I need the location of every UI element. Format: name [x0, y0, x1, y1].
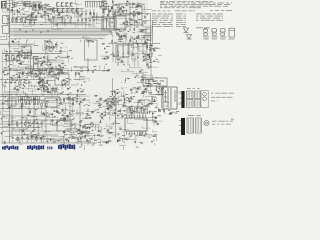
transistor Q22 — [62, 80, 67, 85]
resistor R34 — [137, 35, 140, 38]
diode D83 — [96, 101, 98, 102]
wire — [103, 142, 106, 144]
resistor R22 — [49, 67, 52, 70]
label text — [185, 19, 186, 22]
wire — [56, 52, 68, 56]
label text — [51, 66, 53, 69]
capacitor C146 — [59, 98, 61, 101]
wire — [0, 103, 30, 105]
node N1 — [109, 10, 112, 13]
connector P2 housing — [181, 118, 185, 135]
label text — [104, 0, 106, 3]
wire part lead2 — [41, 125, 43, 127]
label text — [56, 41, 57, 44]
diode D35 — [149, 56, 150, 58]
wire — [124, 30, 128, 37]
wire — [152, 47, 160, 49]
label text — [118, 139, 121, 142]
wire — [131, 54, 139, 59]
wire — [25, 68, 62, 70]
wire — [109, 101, 115, 108]
wire — [54, 85, 58, 89]
label text — [226, 9, 232, 12]
diode D73 — [147, 112, 148, 114]
watermark word 3 — [47, 147, 53, 150]
wire — [43, 81, 45, 87]
label text — [42, 78, 44, 81]
label text — [153, 100, 155, 103]
wire part lead — [16, 17, 18, 19]
node N24 — [115, 9, 118, 12]
label text — [30, 70, 33, 73]
transistor Q23 — [147, 64, 149, 66]
capacitor C119 — [117, 115, 119, 116]
capacitor C21 — [19, 29, 20, 31]
diode D71 — [67, 131, 69, 132]
label text — [81, 101, 83, 104]
label text — [129, 0, 132, 1]
label text — [125, 93, 128, 96]
resistor R67 — [94, 94, 97, 97]
capacitor C128 — [39, 73, 41, 76]
wire — [53, 18, 63, 25]
transistor Q45 — [86, 113, 88, 115]
transistor Q8 — [58, 14, 60, 16]
label text — [196, 17, 198, 20]
wire — [137, 2, 139, 9]
legend package TO-92 pads — [204, 33, 208, 35]
label text — [169, 5, 176, 8]
wire — [76, 69, 83, 71]
wire — [86, 110, 95, 112]
label text — [136, 107, 137, 110]
label text — [221, 9, 224, 12]
resistor R63 — [35, 136, 38, 139]
label text — [25, 128, 28, 131]
wire — [112, 78, 114, 96]
label text — [181, 10, 187, 13]
diode D20 — [127, 31, 129, 32]
label text — [119, 113, 122, 116]
label text — [106, 55, 108, 58]
label text — [99, 102, 100, 105]
wire — [130, 18, 134, 23]
wire — [118, 10, 120, 12]
wire — [76, 67, 88, 74]
label text — [176, 15, 181, 18]
label text — [47, 101, 49, 104]
resistor R83 — [98, 104, 101, 107]
wire — [12, 10, 17, 14]
label text — [158, 114, 162, 117]
capacitor CX2 — [38, 4, 40, 9]
wire — [105, 1, 107, 8]
capacitor C26 — [18, 52, 20, 53]
capacitor C78 — [99, 122, 101, 123]
label text — [64, 82, 66, 85]
label text — [178, 3, 182, 6]
label text — [113, 100, 115, 103]
wire — [48, 14, 55, 20]
label text — [94, 109, 97, 112]
resistor R36 — [124, 35, 127, 38]
wire part lead — [16, 120, 18, 122]
wire — [55, 140, 67, 143]
resistor R62 — [72, 135, 75, 138]
wire — [3, 125, 8, 127]
wire — [29, 87, 36, 92]
wire — [97, 139, 100, 143]
label text — [130, 12, 131, 15]
wire — [61, 120, 67, 122]
wire — [110, 116, 115, 124]
wire — [116, 11, 119, 13]
wire — [157, 61, 161, 63]
label text — [124, 101, 127, 104]
wire — [105, 51, 108, 53]
diode D37 — [147, 59, 149, 60]
resistor R99 — [158, 110, 161, 113]
diode D3 — [44, 4, 46, 5]
label text — [21, 50, 24, 53]
wire — [125, 9, 127, 12]
wire — [125, 37, 127, 44]
wire — [19, 89, 26, 92]
wire — [47, 56, 49, 63]
wire — [135, 106, 138, 108]
wire — [58, 58, 68, 63]
label text — [47, 8, 49, 11]
wire stub — [10, 32, 14, 34]
label text — [98, 141, 101, 144]
wire — [59, 66, 61, 73]
wire part lead2 — [12, 140, 14, 142]
node junction — [28, 52, 32, 55]
label text — [124, 113, 127, 116]
wire — [2, 86, 7, 88]
choke L3 — [116, 45, 129, 57]
label text — [171, 17, 173, 20]
wire part lead — [17, 135, 19, 137]
resistor R71 — [90, 123, 93, 126]
label text — [87, 114, 90, 117]
transistor Q34 — [72, 103, 74, 105]
diode D12 — [60, 47, 62, 48]
diode D72 — [80, 134, 82, 135]
capacitor C35 — [16, 56, 18, 57]
resistor R48 — [144, 43, 147, 46]
capacitor bank C3 — [66, 2, 68, 6]
wire — [16, 85, 21, 87]
wire — [26, 59, 35, 62]
resistor R80 — [20, 106, 23, 109]
capacitor C122 — [29, 103, 31, 106]
pin header tick 11 — [39, 96, 41, 103]
wire — [64, 141, 66, 148]
capacitor C45 — [123, 6, 124, 8]
node N23 — [120, 26, 123, 29]
label text — [137, 22, 140, 25]
label text — [91, 144, 94, 147]
wire vertical string 5 — [93, 9, 95, 26]
resistor R95 — [148, 54, 151, 57]
watermark word 4 — [58, 144, 75, 150]
wire — [142, 22, 152, 26]
wire — [81, 131, 88, 133]
capacitor C37 — [39, 69, 40, 71]
diode D48 — [115, 94, 116, 96]
resistor R46 — [111, 40, 114, 43]
node N28 — [22, 75, 25, 78]
node N47 — [71, 124, 74, 127]
label text — [46, 115, 49, 118]
wire part lead — [43, 87, 45, 89]
wire — [141, 7, 145, 11]
wire — [140, 40, 142, 42]
wire — [33, 44, 37, 46]
label text — [29, 102, 31, 105]
transistor Q21 — [121, 60, 123, 62]
wire part lead2 — [7, 22, 9, 24]
wire part lead2 — [43, 92, 45, 94]
resistor R58 — [29, 72, 32, 75]
capacitor C132 — [10, 81, 12, 84]
label text — [154, 110, 156, 113]
wire — [89, 21, 97, 27]
label text — [150, 44, 152, 47]
wire — [148, 91, 151, 93]
label text — [202, 0, 208, 3]
label text — [149, 44, 152, 47]
wire — [58, 92, 64, 94]
label text — [110, 90, 113, 93]
wire bus line A — [14, 21, 89, 23]
transistor Q10 — [29, 20, 34, 25]
diode D16 — [49, 64, 51, 65]
capacitor C33 — [20, 63, 21, 65]
label text — [16, 60, 17, 63]
label text — [163, 13, 167, 16]
wire — [6, 50, 8, 57]
transistor Q60 — [114, 112, 116, 114]
resistor R105 — [107, 107, 110, 110]
wire — [96, 20, 108, 22]
label text — [203, 5, 208, 8]
resistor array RN1 — [127, 108, 129, 113]
label text — [89, 139, 91, 142]
capacitor C48 — [137, 5, 139, 6]
label text — [136, 4, 139, 7]
label text — [15, 93, 18, 96]
resistor R42 — [118, 35, 121, 38]
wire part lead — [25, 101, 27, 103]
label text — [114, 41, 116, 44]
wire — [13, 129, 18, 131]
label text — [135, 8, 137, 11]
label text — [34, 133, 37, 136]
label text — [196, 15, 199, 18]
diode D42 — [67, 81, 68, 83]
wire — [2, 53, 62, 55]
wire — [82, 113, 85, 115]
wire — [10, 134, 58, 136]
label text — [152, 21, 157, 24]
node N18 — [131, 40, 134, 43]
pin tick 4 — [91, 1, 93, 8]
wire part lead — [20, 17, 22, 19]
wire — [4, 85, 16, 93]
label text — [23, 52, 25, 55]
wire — [48, 47, 57, 50]
label text — [74, 12, 75, 15]
wire — [29, 106, 33, 109]
legend package SOT pads — [212, 33, 216, 35]
label text — [118, 96, 120, 99]
transistor Q50 — [141, 107, 143, 109]
diode D65 — [72, 119, 74, 120]
label text — [61, 42, 63, 45]
watermark word 2 — [27, 145, 44, 150]
wire — [64, 108, 66, 114]
transistor Q44 — [40, 138, 42, 140]
wire — [133, 21, 137, 27]
diode D31 — [127, 21, 128, 23]
wire part lead2 — [48, 76, 50, 78]
wire — [115, 100, 122, 102]
label text — [16, 79, 18, 82]
wire — [138, 28, 148, 30]
pin header tick 4 — [24, 96, 26, 103]
resistor R3 — [23, 3, 26, 6]
capacitor C147 — [63, 98, 65, 101]
wire part lead2 — [5, 85, 7, 87]
wire — [50, 69, 57, 75]
label text — [159, 108, 161, 111]
label text — [148, 53, 150, 56]
node N50 — [73, 117, 76, 120]
transistor Q47 — [78, 129, 80, 131]
label text — [170, 111, 172, 114]
label text — [34, 73, 36, 76]
resistor R77 — [82, 125, 85, 128]
label text — [60, 70, 63, 73]
label text — [55, 65, 56, 68]
scan shading left — [0, 0, 148, 145]
capacitor C70 — [19, 75, 20, 77]
wire — [58, 72, 66, 74]
transistor Q9 — [60, 50, 62, 52]
scan shading primary — [0, 39, 66, 73]
label text — [29, 124, 32, 127]
label text — [54, 141, 55, 144]
label text — [137, 13, 140, 16]
wire — [112, 112, 117, 114]
capacitor C52 — [143, 55, 144, 57]
label text — [87, 37, 89, 40]
label text — [141, 103, 143, 106]
capacitor C6 bulk — [34, 64, 39, 71]
label text — [158, 23, 161, 26]
wire bus band 5 — [14, 33, 111, 35]
wire — [147, 99, 151, 101]
label text — [212, 13, 216, 16]
resistor R31 — [133, 14, 136, 17]
wire — [108, 43, 160, 45]
resistor R51 — [143, 59, 146, 62]
wire — [72, 130, 74, 134]
wire — [43, 9, 53, 11]
label text — [109, 136, 111, 139]
diode D44 — [12, 78, 13, 80]
label text — [221, 92, 227, 95]
label text — [196, 27, 203, 30]
wire — [81, 19, 92, 26]
label text — [141, 142, 143, 145]
capacitor C116 — [48, 84, 50, 85]
label text — [176, 13, 183, 16]
wire — [91, 127, 101, 131]
label text — [35, 118, 37, 121]
resistor R45 — [119, 8, 122, 11]
wire — [51, 139, 59, 141]
label text — [119, 99, 122, 102]
wire part lead2 — [67, 102, 69, 104]
wire part lead2 — [16, 22, 18, 24]
capacitor C118 — [39, 81, 40, 83]
wire — [81, 99, 90, 101]
label text — [99, 144, 102, 147]
wire — [122, 53, 124, 56]
label text — [58, 120, 60, 123]
capacitor bank C4 — [70, 2, 72, 6]
label text — [91, 121, 94, 124]
pin P1c-3 — [198, 92, 200, 98]
label text — [217, 3, 222, 6]
resistor R84 — [42, 113, 45, 116]
wire drop T2 a — [103, 4, 105, 17]
label text — [99, 103, 102, 106]
wire bus line B — [14, 24, 93, 26]
label text — [49, 39, 51, 42]
wire drop T2 b — [108, 5, 110, 17]
transformer T4 output — [163, 87, 177, 109]
transistor Q54 — [149, 49, 151, 51]
label text — [6, 50, 8, 53]
label text — [135, 137, 137, 140]
wire fan 4 — [111, 34, 113, 38]
label text — [9, 68, 12, 71]
label text — [152, 25, 154, 28]
wire — [124, 132, 130, 138]
resistor R5 — [33, 4, 36, 7]
resistor R114 — [46, 103, 48, 106]
label text — [49, 7, 50, 10]
transistor Q4 — [107, 14, 109, 16]
transistor Q27 — [63, 80, 65, 82]
wire — [139, 130, 143, 136]
wire — [132, 74, 144, 77]
label text — [172, 15, 173, 18]
wire — [17, 1, 30, 9]
wire — [141, 75, 152, 82]
label text — [104, 0, 106, 2]
transistor Q25 — [145, 88, 147, 90]
node N44 — [78, 95, 81, 98]
wire — [115, 56, 124, 63]
wire part lead — [63, 97, 65, 99]
label text — [204, 38, 209, 41]
node N6 — [34, 16, 37, 19]
